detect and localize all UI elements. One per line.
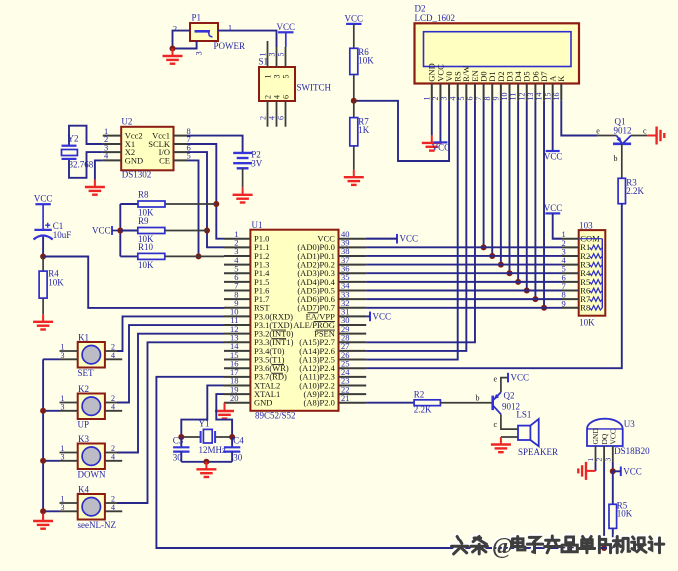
- power VCC at S1: [277, 22, 296, 33]
- wire LCD GND to ground: [431, 101, 433, 136]
- wire U3 VCC to junction: [612, 462, 614, 471]
- U1 pin 38: [339, 255, 367, 257]
- resistor R7 1K: [350, 116, 370, 146]
- wire P0.3 bus row: [366, 272, 562, 274]
- LCD pin 4 stub: [457, 84, 459, 101]
- svg-text:(A8)P2.0: (A8)P2.0: [303, 398, 334, 408]
- U2 pin 5: [174, 159, 188, 161]
- U1 pin 23: [339, 384, 367, 386]
- LCD pin 3 stub: [448, 84, 450, 101]
- U1 pin 13: [224, 341, 250, 343]
- wire P1 pin3 to ground: [173, 41, 197, 49]
- svg-text:Y1: Y1: [199, 419, 210, 429]
- junction SCLK/R8: [213, 201, 219, 207]
- svg-text:D2: D2: [415, 4, 426, 14]
- wire LCD D3 to U1 P0.3: [508, 101, 510, 274]
- pushbutton K4 body: [78, 485, 116, 530]
- wire R3 to U1 P2.4: [366, 204, 622, 368]
- junction D7/P0.7: [541, 305, 547, 311]
- resistor R4 10K: [39, 269, 64, 299]
- resistor R10 10K: [138, 242, 165, 270]
- junction Y1 left: [178, 434, 184, 440]
- RP pin 1: [562, 238, 579, 240]
- svg-text:4: 4: [111, 452, 115, 461]
- wire junction to U1 RST: [43, 257, 224, 308]
- crystal Y2: [62, 134, 94, 170]
- RP resistor element R8: [590, 305, 603, 310]
- svg-text:@: @: [492, 534, 513, 560]
- wire U1 P2.0 to R2: [366, 402, 414, 404]
- capacitor C1 10uF: [34, 221, 72, 240]
- wire U3 GND to ground: [595, 462, 597, 471]
- K2 pin 1: [60, 402, 78, 404]
- junction U3 VCC/R5: [610, 468, 616, 474]
- RP resistor element R7: [590, 297, 603, 302]
- LCD pin 7 stub: [483, 84, 485, 101]
- svg-text:GND: GND: [125, 155, 143, 165]
- LCD pin 10 stub: [508, 84, 510, 101]
- wire LCD EN to U1 P2.7: [366, 101, 475, 343]
- svg-text:3: 3: [268, 53, 277, 57]
- pushbutton K2 body: [78, 384, 105, 429]
- power VCC at Q2: [508, 373, 529, 383]
- svg-text:30: 30: [233, 453, 243, 463]
- wire R10 to U1 pin3: [165, 255, 224, 257]
- resistor R3 2.2K: [618, 177, 644, 203]
- wire Y2 bottom to U2.X2: [69, 152, 103, 178]
- svg-text:4: 4: [111, 402, 115, 411]
- ground at speaker: [491, 437, 511, 452]
- wire crystal ground loop: [181, 461, 232, 463]
- S1 pin 5 (top): [285, 47, 287, 67]
- svg-text:2: 2: [259, 116, 268, 120]
- svg-text:103: 103: [579, 221, 593, 231]
- sensor U3 DS18B20 body: [587, 419, 650, 456]
- wire P1 pin1 to S1/VCC: [218, 31, 277, 47]
- K2 pin 2: [105, 402, 117, 404]
- svg-text:VCC: VCC: [511, 373, 530, 383]
- U1 pin 1: [224, 238, 250, 240]
- svg-text:4: 4: [273, 95, 282, 99]
- svg-text:c: c: [643, 126, 647, 135]
- svg-text:S1: S1: [259, 57, 269, 67]
- svg-text:10uF: 10uF: [53, 230, 72, 240]
- svg-text:3V: 3V: [251, 159, 262, 169]
- svg-text:12MHz: 12MHz: [199, 445, 227, 455]
- K2 pin 4: [105, 410, 122, 412]
- wire R8 net to U1 pin1: [216, 204, 224, 239]
- wire DQ net to U1 P3.7: [156, 377, 612, 548]
- junction VCC/R9 row: [117, 228, 123, 234]
- U1 pin 26: [339, 359, 367, 361]
- U2 pin 4: [103, 159, 121, 161]
- junction P1 ground: [170, 46, 176, 52]
- K4 pin 1: [60, 502, 78, 504]
- wire U1 pin13 to K4 pin2: [117, 342, 224, 503]
- U1 pin 22: [339, 393, 367, 395]
- wire U1 XTAL1 to crystal: [216, 394, 232, 437]
- svg-text:K2: K2: [78, 384, 89, 394]
- RP pin 9: [562, 307, 579, 309]
- overline INT0: [272, 329, 287, 331]
- svg-text:VCC: VCC: [544, 152, 563, 162]
- junction D2/P0.2: [498, 262, 504, 268]
- U1 pin 21: [339, 402, 367, 404]
- wire R8 to junction: [165, 203, 216, 205]
- U1 pin 4: [224, 264, 250, 266]
- junction CE/R10: [196, 253, 202, 259]
- wire VCC to R6: [353, 24, 355, 48]
- wire speaker to ground: [501, 436, 518, 438]
- svg-text:GND: GND: [254, 398, 272, 408]
- wire VCC to RP pin1: [553, 213, 562, 238]
- wire K3 pin3 to rail: [43, 460, 59, 462]
- wire P0.2 bus row: [366, 264, 562, 266]
- RP resistor element R3: [590, 262, 603, 267]
- ground at button rail: [33, 514, 53, 529]
- capacitor C3 30: [173, 435, 190, 462]
- RP resistor element R6: [590, 288, 603, 293]
- LCD pin 15 stub: [552, 84, 554, 101]
- wire LCD D5 to U1 P0.5: [526, 101, 528, 291]
- U1 pin 2: [224, 246, 250, 248]
- svg-text:VCC: VCC: [345, 13, 364, 23]
- LCD pin 2 stub: [439, 84, 441, 101]
- wire P2 to ground: [242, 168, 244, 187]
- power VCC at R6: [345, 13, 364, 24]
- svg-text:VCC: VCC: [34, 194, 53, 204]
- RP pin 3: [562, 255, 579, 257]
- U2 pin 3: [103, 151, 121, 153]
- U1 pin 19: [224, 393, 250, 395]
- svg-text:2: 2: [264, 95, 273, 99]
- svg-text:c: c: [494, 420, 498, 429]
- wire Q2 collector to speaker: [501, 414, 518, 429]
- wire Q1 collector to ground: [631, 135, 647, 137]
- LCD pin 16 stub: [560, 84, 562, 101]
- K3 pin 3: [60, 460, 78, 462]
- power VCC at U1 pin40: [397, 234, 418, 244]
- K3 pin 1: [60, 452, 78, 454]
- junction D5/P0.5: [524, 287, 530, 293]
- wire pin40 to VCC: [366, 238, 397, 240]
- U1 pin 32: [339, 307, 367, 309]
- svg-text:DS1302: DS1302: [122, 170, 152, 180]
- K1 pin 1: [60, 350, 78, 352]
- U1 pin 9: [224, 307, 250, 309]
- U1 pin 34: [339, 289, 367, 291]
- U1 pin 15: [224, 359, 250, 361]
- svg-text:16: 16: [552, 93, 561, 101]
- wire LCD K to Q1 emitter: [561, 101, 598, 136]
- svg-text:U3: U3: [624, 419, 635, 429]
- svg-text:R10: R10: [138, 242, 154, 252]
- ground at Y1: [196, 462, 216, 477]
- U1 pin 25: [339, 367, 367, 369]
- wire P0.1 bus row: [366, 255, 562, 257]
- wire R7 to ground: [353, 146, 355, 170]
- ground at Q1 collector: [647, 127, 664, 145]
- wire LCD D2 to U1 P0.2: [500, 101, 502, 265]
- battery P2 3V: [233, 149, 263, 168]
- junction D4/P0.4: [515, 279, 521, 285]
- svg-text:10K: 10K: [358, 56, 374, 66]
- U1 pin 5: [224, 272, 250, 274]
- svg-text:U1: U1: [252, 220, 263, 230]
- wire CE to R10 net: [187, 160, 199, 256]
- svg-text:4: 4: [268, 116, 277, 120]
- wire LCD D0 to U1 P0.0: [483, 101, 485, 248]
- wire VCC to S1 pin5: [285, 32, 287, 47]
- wire junction to R5: [612, 471, 614, 504]
- wire R9 to junction: [165, 230, 207, 232]
- ground at U2: [85, 180, 105, 195]
- wire COM row: [553, 238, 562, 240]
- U1 pin 35: [339, 281, 367, 283]
- svg-text:DOWN: DOWN: [78, 470, 106, 480]
- svg-text:R9: R9: [138, 216, 149, 226]
- svg-text:LS1: LS1: [516, 410, 531, 420]
- svg-text:U2: U2: [121, 117, 132, 127]
- U1 pin 3: [224, 255, 250, 257]
- svg-text:5: 5: [282, 75, 291, 79]
- svg-text:b: b: [476, 393, 480, 402]
- wire P1 pin2 to ground: [173, 31, 191, 49]
- ground at LCD pin1: [422, 135, 442, 150]
- U1 pin 12: [224, 333, 250, 335]
- LCD pin 6 stub: [474, 84, 476, 101]
- LCD pin 13 stub: [534, 84, 536, 101]
- wire VCC row pin40 area: [366, 238, 397, 240]
- overline INT1: [272, 338, 287, 340]
- svg-text:LCD_1602: LCD_1602: [415, 13, 456, 23]
- svg-text:seeNL-NZ: seeNL-NZ: [78, 520, 116, 530]
- overline PROG: [314, 320, 335, 322]
- IC U1 89C52/S52 body: [250, 220, 338, 420]
- svg-text:1: 1: [264, 75, 273, 79]
- svg-text:3: 3: [61, 503, 65, 512]
- S1 pin 6 (bottom): [285, 101, 287, 127]
- junction I/O/R9: [204, 228, 210, 234]
- K4 pin 3: [60, 510, 78, 512]
- svg-text:3: 3: [61, 452, 65, 461]
- U1 pin 7: [224, 289, 250, 291]
- RP resistor element R4: [590, 271, 603, 276]
- K4 pin 2: [105, 502, 117, 504]
- ground at R4: [33, 314, 53, 329]
- wire U2.Vcc1 to P2: [187, 136, 243, 153]
- overline PSEN: [315, 329, 335, 331]
- svg-text:POWER: POWER: [214, 41, 246, 51]
- overline RD: [272, 372, 284, 374]
- RP pin 8: [562, 298, 579, 300]
- RP pin 4: [562, 264, 579, 266]
- K3 pin 2: [105, 452, 117, 454]
- svg-text:89C52/S52: 89C52/S52: [255, 410, 296, 420]
- power VCC at U3: [621, 466, 642, 476]
- ground at P1: [163, 49, 183, 64]
- wire junction to VCC bar: [613, 470, 621, 472]
- svg-text:VCC: VCC: [623, 466, 642, 476]
- U1 pin 8: [224, 298, 250, 300]
- wire C1 to junction: [42, 237, 44, 257]
- svg-text:4: 4: [104, 151, 109, 161]
- U2 pin 6: [174, 151, 188, 153]
- ground at U3: [578, 462, 595, 480]
- svg-text:VCC: VCC: [400, 234, 419, 244]
- svg-text:6: 6: [282, 95, 291, 99]
- wire VCC rail vertical: [119, 204, 121, 256]
- LCD pin 8 stub: [491, 84, 493, 101]
- svg-text:DQ: DQ: [600, 433, 609, 444]
- svg-text:9: 9: [561, 298, 565, 308]
- power VCC at RP COM: [544, 203, 563, 213]
- svg-text:Y2: Y2: [68, 134, 79, 144]
- wire pin31 to VCC: [366, 315, 370, 317]
- K4 pin 4: [105, 510, 122, 512]
- wire U1 pin11 to K2 pin2: [117, 325, 224, 402]
- svg-text:VCC: VCC: [609, 429, 618, 444]
- watermark 头条@电子产品单片机设计: [450, 532, 664, 559]
- svg-text:K3: K3: [78, 434, 89, 444]
- IC U2 DS1302 body: [121, 117, 173, 180]
- connector P1 (POWER): [190, 13, 245, 52]
- LCD pin 1 stub: [431, 84, 433, 101]
- U3 pin 1 stub: [595, 446, 597, 462]
- wire R6 to junction: [353, 75, 355, 101]
- resistor R2 2.2K: [414, 389, 441, 414]
- U2 pin 2: [103, 143, 121, 145]
- U2 pin 8: [174, 135, 188, 137]
- svg-text:P1: P1: [192, 13, 202, 23]
- svg-text:21: 21: [341, 393, 350, 403]
- svg-text:SPEAKER: SPEAKER: [518, 447, 558, 457]
- RP COM link: [579, 238, 603, 240]
- wire rail to R10: [120, 255, 138, 257]
- svg-text:K: K: [556, 75, 566, 82]
- wire P0.6 bus row: [366, 298, 562, 300]
- svg-text:10K: 10K: [48, 278, 64, 288]
- LCD pin 9 stub: [500, 84, 502, 101]
- wire LCD R/W to U1 P2.6: [366, 101, 466, 351]
- U3 pin 3 stub: [612, 446, 614, 462]
- wire R2 to Q2 base: [440, 402, 492, 404]
- LCD pin 14 stub: [543, 84, 545, 101]
- svg-text:1: 1: [259, 53, 268, 57]
- svg-text:SWITCH: SWITCH: [297, 83, 332, 93]
- wire LCD VCC pin: [439, 101, 441, 143]
- K1 pin 4: [105, 358, 122, 360]
- svg-text:20: 20: [230, 393, 239, 403]
- U1 pin 10: [224, 315, 250, 317]
- junction R6/R7/V0: [351, 98, 357, 104]
- svg-text:UP: UP: [78, 420, 90, 430]
- U1 pin 6: [224, 281, 250, 283]
- wire R4 to ground: [42, 298, 44, 314]
- U1 pin 14: [224, 350, 250, 352]
- svg-text:K1: K1: [78, 333, 89, 343]
- wire LCD D1 to U1 P0.1: [491, 101, 493, 256]
- U1 pin 17: [224, 376, 250, 378]
- K3 pin 4: [105, 460, 122, 462]
- svg-text:VCC: VCC: [544, 203, 563, 213]
- wire K2 pin3 to rail: [43, 410, 59, 412]
- S1 pin 4 (bottom): [276, 101, 278, 127]
- wire U2 GND pin4 to ground: [95, 160, 103, 179]
- U1 pin 29: [339, 333, 367, 335]
- wire button ground rail: [42, 359, 44, 521]
- wire LCD V0 to R6/R7: [354, 101, 449, 161]
- junction D3/P0.3: [506, 270, 512, 276]
- S1 pin 2 (bottom): [267, 101, 269, 127]
- svg-text:Q2: Q2: [504, 391, 515, 401]
- svg-text:2: 2: [595, 458, 604, 462]
- ground at R7: [344, 170, 364, 185]
- wire LCD D4 to U1 P0.4: [517, 101, 519, 282]
- resistor R6 10K: [350, 47, 375, 75]
- svg-text:R8: R8: [138, 190, 149, 200]
- U2 pin 1: [103, 135, 121, 137]
- junction DQ net: [601, 545, 607, 551]
- U1 pin 16: [224, 367, 250, 369]
- svg-text:b: b: [614, 154, 618, 163]
- svg-text:CE: CE: [159, 155, 170, 165]
- switch S1 body: [259, 57, 332, 102]
- svg-text:10K: 10K: [579, 318, 595, 328]
- junction rail K2: [40, 408, 46, 414]
- wire LCD D6 to U1 P0.6: [534, 101, 536, 300]
- svg-text:K4: K4: [78, 485, 89, 495]
- svg-text:3: 3: [61, 402, 65, 411]
- junction rail K4: [40, 508, 46, 514]
- power VCC at U1 pin31: [370, 311, 391, 321]
- svg-text:2.2K: 2.2K: [414, 404, 432, 414]
- U1 pin 27: [339, 350, 367, 352]
- svg-text:4: 4: [111, 503, 115, 512]
- junction rail K3: [40, 458, 46, 464]
- wire rail to R9: [120, 230, 138, 232]
- RP pin 7: [562, 289, 579, 291]
- U1 pin 39: [339, 246, 367, 248]
- wire junction to R4: [42, 257, 44, 272]
- K1 pin 2: [105, 350, 117, 352]
- U1 pin 37: [339, 264, 367, 266]
- wire LCD RS to U1 P2.5: [366, 101, 457, 360]
- RP common rail: [601, 239, 603, 308]
- svg-text:6: 6: [277, 116, 286, 120]
- wire Y2 top to U2.X1: [69, 126, 103, 146]
- power VCC rail for R8-R10: [92, 226, 120, 236]
- resistor network RP 103: [579, 221, 606, 328]
- svg-text:DS18B20: DS18B20: [614, 446, 650, 456]
- wire rail to R8: [120, 203, 138, 205]
- junction C1/R4/RST: [40, 254, 46, 260]
- U1 pin 30: [339, 324, 367, 326]
- svg-text:4: 4: [111, 351, 115, 360]
- pushbutton K1 body: [78, 333, 105, 378]
- svg-text:3: 3: [194, 51, 204, 55]
- svg-text:VCC: VCC: [277, 22, 296, 32]
- wire K1 pin3 to rail: [43, 358, 59, 360]
- svg-text:SET: SET: [78, 368, 95, 378]
- wire P0.4 bus row: [366, 281, 562, 283]
- overline EA: [308, 312, 319, 314]
- svg-text:e: e: [494, 375, 498, 384]
- wire LCD D7 to U1 P0.7: [543, 101, 545, 308]
- svg-text:3: 3: [61, 351, 65, 360]
- wire VCC to C1: [42, 204, 44, 230]
- power VCC at C1: [34, 194, 53, 205]
